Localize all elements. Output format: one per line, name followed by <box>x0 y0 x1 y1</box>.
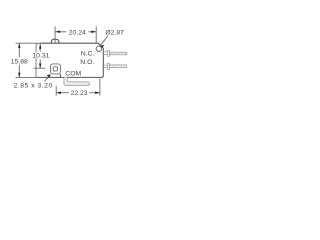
svg-text:N.C.: N.C. <box>81 51 95 58</box>
svg-text:COM: COM <box>65 70 81 77</box>
svg-text:10.31: 10.31 <box>32 53 49 60</box>
svg-text:20.24: 20.24 <box>69 30 86 37</box>
svg-text:22.23: 22.23 <box>71 90 88 97</box>
svg-text:Ø2.87: Ø2.87 <box>105 30 124 37</box>
svg-text:N.O.: N.O. <box>80 59 94 66</box>
svg-text:15.88: 15.88 <box>11 58 28 65</box>
svg-text:2.85 x 3.20: 2.85 x 3.20 <box>14 83 53 90</box>
